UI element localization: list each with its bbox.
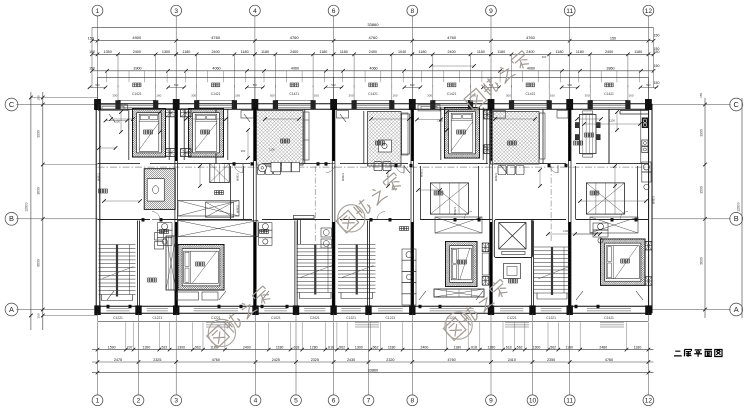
- svg-text:11: 11: [566, 398, 573, 405]
- nightstand column mid bed: [482, 243, 489, 252]
- tv walls and AC units: [304, 112, 310, 160]
- svg-text:160: 160: [628, 94, 633, 98]
- svg-text:2400: 2400: [211, 50, 219, 54]
- svg-text:1100: 1100: [269, 148, 275, 152]
- bedroom partition walls: [128, 109, 130, 160]
- staircase right: [534, 247, 570, 299]
- left dimension stack: [30, 92, 32, 330]
- svg-text:3900: 3900: [133, 67, 141, 71]
- svg-text:8: 8: [410, 398, 414, 405]
- left grid bubbles C,B,A: [5, 98, 18, 111]
- svg-text:C2421: C2421: [604, 316, 614, 320]
- svg-text:M0921: M0921: [341, 172, 345, 181]
- svg-text:2325: 2325: [311, 358, 319, 362]
- svg-text:1180: 1180: [419, 50, 427, 54]
- cabinet right d: [593, 223, 608, 243]
- svg-text:1180: 1180: [634, 345, 642, 349]
- svg-text:1040: 1040: [398, 50, 406, 54]
- svg-text:4760: 4760: [369, 35, 379, 40]
- entry steps below porch: [206, 322, 230, 324]
- svg-text:M0921: M0921: [97, 172, 101, 181]
- svg-text:C1421: C1421: [132, 92, 142, 96]
- interior dim ticks: [106, 120, 128, 122]
- svg-text:7: 7: [367, 398, 371, 405]
- closet unit2 L: [430, 183, 468, 214]
- svg-text:150: 150: [654, 34, 660, 38]
- svg-text:2400: 2400: [605, 50, 613, 54]
- svg-text:4: 4: [253, 8, 257, 15]
- svg-text:2400: 2400: [290, 50, 298, 54]
- living room rug 1: [199, 111, 361, 215]
- wardrobe strip 2: [434, 289, 484, 297]
- svg-text:160: 160: [550, 94, 555, 98]
- svg-text:618: 618: [471, 345, 477, 349]
- svg-text:33860: 33860: [368, 368, 379, 372]
- svg-text:150: 150: [610, 37, 616, 41]
- washer circle and boxes: [258, 164, 266, 172]
- dining table: [575, 111, 600, 157]
- svg-text:532: 532: [161, 345, 167, 349]
- nightstand boxes bottom: [166, 149, 177, 157]
- svg-text:1180: 1180: [477, 50, 485, 54]
- svg-text:M0921: M0921: [652, 195, 656, 204]
- svg-text:33860: 33860: [367, 22, 379, 27]
- svg-text:2: 2: [137, 398, 141, 405]
- svg-text:1180: 1180: [454, 345, 462, 349]
- svg-text:1300: 1300: [533, 345, 541, 349]
- top grid extension lines: [97, 16, 99, 107]
- svg-text:3: 3: [174, 398, 178, 405]
- watermark bottom-left seal: [206, 284, 272, 348]
- staircase mid pair B: [338, 245, 376, 299]
- svg-text:2320: 2320: [386, 358, 394, 362]
- kitchen fixtures right wall lower: [642, 162, 651, 190]
- bottom dim extension comb: [125, 322, 127, 349]
- svg-text:C1421: C1421: [289, 92, 299, 96]
- svg-text:B: B: [9, 214, 14, 223]
- elevator shaft: [494, 220, 532, 258]
- svg-text:1180: 1180: [241, 50, 249, 54]
- svg-text:150: 150: [654, 81, 660, 85]
- nightstand boxes top: [166, 109, 177, 117]
- tv cabinet rug2: [378, 140, 391, 152]
- svg-text:2400: 2400: [421, 345, 429, 349]
- svg-text:M0921: M0921: [236, 204, 240, 213]
- svg-text:A: A: [734, 305, 739, 314]
- svg-text:4760: 4760: [447, 358, 455, 362]
- svg-text:C1421: C1421: [526, 92, 536, 96]
- svg-text:900: 900: [542, 55, 547, 59]
- svg-text:160: 160: [314, 94, 319, 98]
- door leaf strokes: [107, 291, 114, 300]
- svg-text:150: 150: [654, 64, 660, 68]
- svg-text:C1221: C1221: [507, 316, 517, 320]
- svg-text:160: 160: [235, 94, 240, 98]
- svg-text:4760: 4760: [212, 358, 220, 362]
- svg-text:1180: 1180: [319, 50, 327, 54]
- svg-text:550: 550: [568, 83, 573, 87]
- svg-text:4760: 4760: [211, 35, 221, 40]
- kitchen sink right wall: [642, 140, 648, 146]
- svg-text:C1221: C1221: [546, 316, 556, 320]
- staircase left: [99, 245, 136, 301]
- bed bottom-left: [178, 245, 224, 291]
- cabinet column b: [259, 223, 272, 246]
- svg-text:3860: 3860: [606, 67, 614, 71]
- svg-text:4060: 4060: [212, 67, 220, 71]
- svg-text:1280: 1280: [310, 345, 318, 349]
- watermark center seal: [336, 171, 404, 233]
- svg-text:1390: 1390: [143, 345, 151, 349]
- svg-text:1300: 1300: [177, 345, 185, 349]
- counter above: [178, 201, 239, 217]
- living room rug 3: [435, 112, 595, 216]
- svg-text:1180: 1180: [565, 345, 573, 349]
- svg-text:1180: 1180: [261, 50, 269, 54]
- svg-text:1180: 1180: [556, 50, 564, 54]
- staircase mid pair A: [297, 245, 335, 299]
- svg-text:5600: 5600: [699, 257, 703, 265]
- awning (yupeng) band: [98, 76, 649, 78]
- svg-text:900: 900: [241, 149, 246, 153]
- awning labels C1421: [133, 83, 137, 87]
- svg-text:550: 550: [646, 83, 651, 87]
- top dimension line window sub-dims: [92, 53, 654, 55]
- svg-text:2400: 2400: [447, 50, 455, 54]
- svg-text:160: 160: [392, 94, 397, 98]
- svg-text:150: 150: [37, 313, 41, 318]
- svg-text:9: 9: [489, 8, 493, 15]
- svg-text:C: C: [9, 100, 15, 109]
- breakfast bar: [294, 216, 315, 219]
- svg-text:1180: 1180: [340, 50, 348, 54]
- svg-text:1100: 1100: [609, 119, 615, 123]
- sofa seats rug2: [374, 162, 391, 171]
- svg-text:M0921: M0921: [420, 168, 424, 177]
- fixture boxes mid-left: [155, 233, 164, 241]
- svg-text:2325: 2325: [153, 358, 161, 362]
- svg-text:1180: 1180: [497, 50, 505, 54]
- svg-text:1280: 1280: [488, 345, 496, 349]
- svg-text:300: 300: [191, 94, 196, 98]
- study desk: [504, 264, 521, 279]
- svg-text:10: 10: [529, 398, 537, 405]
- bottom dimension line sub-dims: [92, 349, 654, 351]
- svg-text:M0921: M0921: [494, 172, 498, 181]
- svg-text:618: 618: [328, 345, 334, 349]
- top dimension line bay widths: [92, 40, 654, 42]
- top exterior wall with windows: [98, 103, 649, 105]
- svg-text:C1021: C1021: [271, 316, 281, 320]
- svg-text:4760: 4760: [605, 358, 613, 362]
- svg-text:4760: 4760: [447, 35, 457, 40]
- kitchen column unit2: [402, 249, 416, 305]
- top grid bubbles 1,3,4,6,8,9,11,12: [92, 5, 103, 16]
- right grid bubbles C,B,A: [730, 98, 743, 111]
- svg-text:3900: 3900: [37, 130, 41, 138]
- top dimension line total 33860: [92, 26, 654, 28]
- svg-text:160: 160: [156, 94, 161, 98]
- top dimension line wall sub-dims: [92, 70, 654, 72]
- svg-text:2425: 2425: [272, 358, 280, 362]
- svg-text:C: C: [734, 100, 740, 109]
- svg-text:C1221: C1221: [346, 316, 356, 320]
- svg-text:C1421: C1421: [368, 92, 378, 96]
- svg-text:1100: 1100: [563, 229, 569, 233]
- title 'second floor plan': [674, 349, 722, 356]
- svg-text:1: 1: [96, 398, 100, 405]
- svg-text:900: 900: [484, 145, 489, 149]
- svg-text:2480: 2480: [599, 345, 607, 349]
- svg-text:300: 300: [348, 94, 353, 98]
- svg-text:12: 12: [645, 398, 653, 405]
- svg-text:4: 4: [254, 398, 258, 405]
- top wall piers: [94, 99, 101, 110]
- svg-text:C1221: C1221: [113, 316, 123, 320]
- svg-text:1350: 1350: [104, 50, 112, 54]
- svg-text:3900: 3900: [699, 129, 703, 137]
- svg-text:150: 150: [37, 95, 41, 100]
- svg-text:237: 237: [127, 345, 133, 349]
- washer boxes corridor: [321, 228, 332, 237]
- svg-text:C1421: C1421: [211, 92, 221, 96]
- svg-text:300: 300: [270, 94, 275, 98]
- svg-text:6: 6: [332, 398, 336, 405]
- svg-text:3600: 3600: [37, 187, 41, 195]
- x-brace landing unit2: [435, 217, 482, 233]
- svg-text:4760: 4760: [526, 35, 536, 40]
- kitchen partition top-right: [620, 110, 648, 112]
- bottom grid extension lines: [97, 322, 99, 394]
- svg-text:C2421: C2421: [310, 316, 320, 320]
- svg-text:11: 11: [566, 8, 573, 15]
- x-brace landing unit1: [178, 221, 258, 237]
- svg-text:618: 618: [293, 345, 299, 349]
- svg-text:300: 300: [427, 94, 432, 98]
- svg-text:C1221: C1221: [152, 316, 162, 320]
- svg-text:1: 1: [96, 8, 100, 15]
- bed bottom-right: [601, 239, 646, 285]
- svg-text:9: 9: [489, 398, 493, 405]
- svg-text:3: 3: [174, 8, 178, 15]
- right exterior wall: [648, 104, 650, 313]
- svg-text:550: 550: [253, 83, 258, 87]
- bed top-left pair B: [189, 109, 224, 158]
- svg-text:550: 550: [174, 83, 179, 87]
- cabinet column a: [157, 223, 172, 246]
- door jamb posts: [233, 162, 236, 165]
- svg-text:12: 12: [645, 8, 653, 15]
- closet unit1: [210, 164, 230, 183]
- interior door arcs: [234, 164, 243, 173]
- svg-text:2400: 2400: [243, 345, 251, 349]
- svg-text:1300: 1300: [355, 345, 363, 349]
- watermark top-center: [464, 49, 532, 111]
- svg-text:8: 8: [410, 8, 414, 15]
- svg-text:1180: 1180: [182, 50, 190, 54]
- svg-text:562: 562: [517, 345, 523, 349]
- svg-text:2475: 2475: [114, 358, 122, 362]
- svg-text:550: 550: [95, 83, 100, 87]
- svg-text:1100: 1100: [114, 120, 120, 124]
- svg-text:M0921: M0921: [453, 206, 457, 215]
- desk unit1: [206, 202, 234, 217]
- x-brace landing unit3: [590, 217, 638, 233]
- svg-text:4060: 4060: [369, 67, 377, 71]
- sofa seats rug3: [498, 166, 524, 175]
- svg-text:1180: 1180: [634, 50, 642, 54]
- svg-text:12900: 12900: [25, 202, 29, 212]
- svg-text:A: A: [9, 305, 14, 314]
- svg-text:12900: 12900: [736, 202, 740, 212]
- svg-text:562: 562: [195, 345, 201, 349]
- svg-text:562: 562: [550, 345, 556, 349]
- stair bay centerlines: [314, 166, 316, 242]
- bathroom hatched: [144, 169, 216, 241]
- room name labels (CJK): [144, 130, 148, 134]
- bed top-middle: [445, 108, 480, 159]
- svg-text:2350: 2350: [547, 358, 555, 362]
- svg-text:550: 550: [410, 83, 415, 87]
- porch band and window labels: [98, 320, 649, 322]
- svg-text:4760: 4760: [290, 35, 300, 40]
- top dim partial 550 row: [89, 86, 107, 88]
- svg-text:1300: 1300: [162, 50, 170, 54]
- dresser under bed bottom-left: [177, 292, 199, 300]
- svg-text:2410: 2410: [508, 358, 516, 362]
- living room rug 2: [311, 112, 458, 202]
- svg-text:2400: 2400: [526, 50, 534, 54]
- svg-text:1180: 1180: [388, 345, 396, 349]
- svg-text:150: 150: [654, 47, 660, 51]
- svg-text:2400: 2400: [369, 50, 377, 54]
- left grid extension lines: [16, 104, 97, 106]
- bottom grid bubbles 1-12: [92, 395, 103, 406]
- svg-text:300: 300: [584, 94, 589, 98]
- closet unit3 L: [586, 183, 624, 214]
- svg-text:2430: 2430: [347, 358, 355, 362]
- svg-text:2400: 2400: [133, 50, 141, 54]
- nightstands bottom-right bed: [645, 242, 651, 250]
- svg-text:3500: 3500: [699, 186, 703, 194]
- kitchen counter line right: [640, 110, 642, 165]
- svg-text:C1421: C1421: [447, 92, 457, 96]
- svg-text:300: 300: [112, 94, 117, 98]
- svg-text:550: 550: [331, 83, 336, 87]
- svg-text:562: 562: [373, 345, 379, 349]
- svg-text:618: 618: [506, 345, 512, 349]
- kitchen stove right wall: [642, 118, 648, 129]
- bottom wall piers: [94, 305, 100, 315]
- svg-text:C1221: C1221: [386, 316, 396, 320]
- svg-text:1180: 1180: [576, 50, 584, 54]
- svg-text:1590: 1590: [108, 345, 116, 349]
- svg-text:4060: 4060: [527, 67, 535, 71]
- interior party walls: [174, 109, 176, 306]
- bottom dimension line pair widths: [92, 361, 654, 363]
- right grid extension lines: [652, 104, 731, 106]
- svg-text:150: 150: [699, 93, 703, 98]
- svg-text:1180: 1180: [276, 345, 284, 349]
- svg-text:4060: 4060: [291, 67, 299, 71]
- svg-text:562: 562: [339, 345, 345, 349]
- svg-text:5: 5: [294, 398, 298, 405]
- right dimension stack: [704, 98, 706, 318]
- sofa seats rug1: [258, 167, 281, 175]
- svg-text:M0921: M0921: [236, 172, 240, 181]
- nightstand boxes bed3: [484, 110, 491, 119]
- svg-text:6600: 6600: [37, 259, 41, 267]
- svg-text:6: 6: [332, 8, 336, 15]
- bottom dimension line total 33860: [92, 372, 654, 374]
- svg-text:C1421: C1421: [604, 92, 614, 96]
- bed bottom-middle: [446, 242, 478, 287]
- left exterior wall: [95, 104, 97, 313]
- bed top-left pair A: [133, 109, 166, 158]
- top dim extension verticals: [117, 54, 119, 87]
- watermark bottom-middle seal: [443, 278, 510, 341]
- svg-text:300: 300: [506, 94, 511, 98]
- wardrobe strip 1: [166, 236, 176, 290]
- svg-text:4900: 4900: [132, 35, 142, 40]
- svg-text:B: B: [734, 214, 739, 223]
- interior corridor walls: [98, 163, 141, 165]
- mid centerline dash-dot: [98, 166, 649, 168]
- bottom exterior wall with windows: [98, 305, 649, 307]
